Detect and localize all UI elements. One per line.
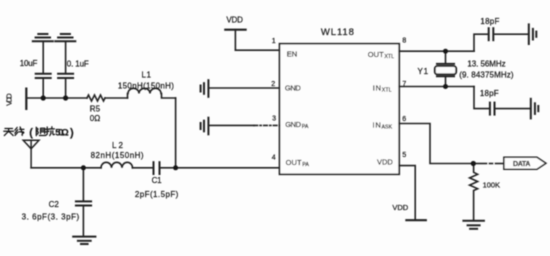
svg-text:C2: C2	[49, 200, 60, 209]
svg-text:GND: GND	[285, 83, 301, 92]
svg-text:18pF: 18pF	[480, 17, 499, 26]
svg-text:7: 7	[402, 81, 406, 88]
svg-text:ASK: ASK	[382, 125, 393, 131]
svg-text:4: 4	[272, 155, 276, 162]
svg-text:PA: PA	[302, 162, 309, 168]
svg-text:0Ω: 0Ω	[90, 114, 100, 123]
svg-text:8: 8	[402, 38, 406, 45]
svg-text:(: (	[29, 127, 33, 139]
svg-text:50Ω: 50Ω	[55, 128, 69, 138]
svg-text:VDD: VDD	[5, 93, 14, 106]
svg-text:L2: L2	[112, 141, 124, 150]
svg-text:82nH(150nH): 82nH(150nH)	[91, 151, 144, 160]
svg-text:6: 6	[402, 116, 406, 123]
svg-text:IN: IN	[373, 83, 381, 92]
svg-text:0. 1uF: 0. 1uF	[67, 59, 89, 68]
svg-text:2pF(1.5pF): 2pF(1.5pF)	[135, 190, 179, 199]
svg-text:3. 6pF(3. 3pF): 3. 6pF(3. 3pF)	[22, 212, 80, 221]
svg-text:5: 5	[402, 152, 406, 159]
svg-text:10uF: 10uF	[20, 59, 38, 68]
svg-text:3: 3	[272, 116, 276, 123]
svg-text:IN: IN	[373, 120, 381, 129]
svg-text:DATA: DATA	[513, 161, 530, 168]
svg-text:GND: GND	[285, 120, 301, 129]
svg-text:1: 1	[272, 38, 276, 45]
svg-text:C1: C1	[152, 176, 163, 185]
svg-text:L1: L1	[142, 70, 152, 79]
svg-text:150nH(150nH): 150nH(150nH)	[118, 82, 174, 91]
svg-text:OUT: OUT	[286, 158, 302, 167]
svg-text:WL118: WL118	[321, 27, 354, 38]
svg-text:PA: PA	[302, 124, 309, 130]
svg-text:100K: 100K	[483, 181, 500, 190]
svg-text:VDD: VDD	[226, 16, 243, 25]
svg-text:2: 2	[271, 81, 275, 88]
svg-text:VDD: VDD	[377, 157, 393, 166]
svg-text:R5: R5	[90, 105, 101, 114]
svg-text:XTL: XTL	[384, 54, 394, 60]
svg-text:VDD: VDD	[392, 203, 408, 212]
svg-text:13. 56MHz: 13. 56MHz	[467, 60, 505, 69]
svg-text:Y1: Y1	[418, 67, 429, 76]
svg-text:18pF: 18pF	[480, 89, 499, 98]
svg-text:): )	[70, 127, 74, 139]
svg-text:XTL: XTL	[382, 87, 392, 93]
svg-text:(9. 84375MHz): (9. 84375MHz)	[459, 71, 514, 80]
svg-text:OUT: OUT	[368, 50, 384, 59]
svg-text:EN: EN	[287, 50, 297, 59]
